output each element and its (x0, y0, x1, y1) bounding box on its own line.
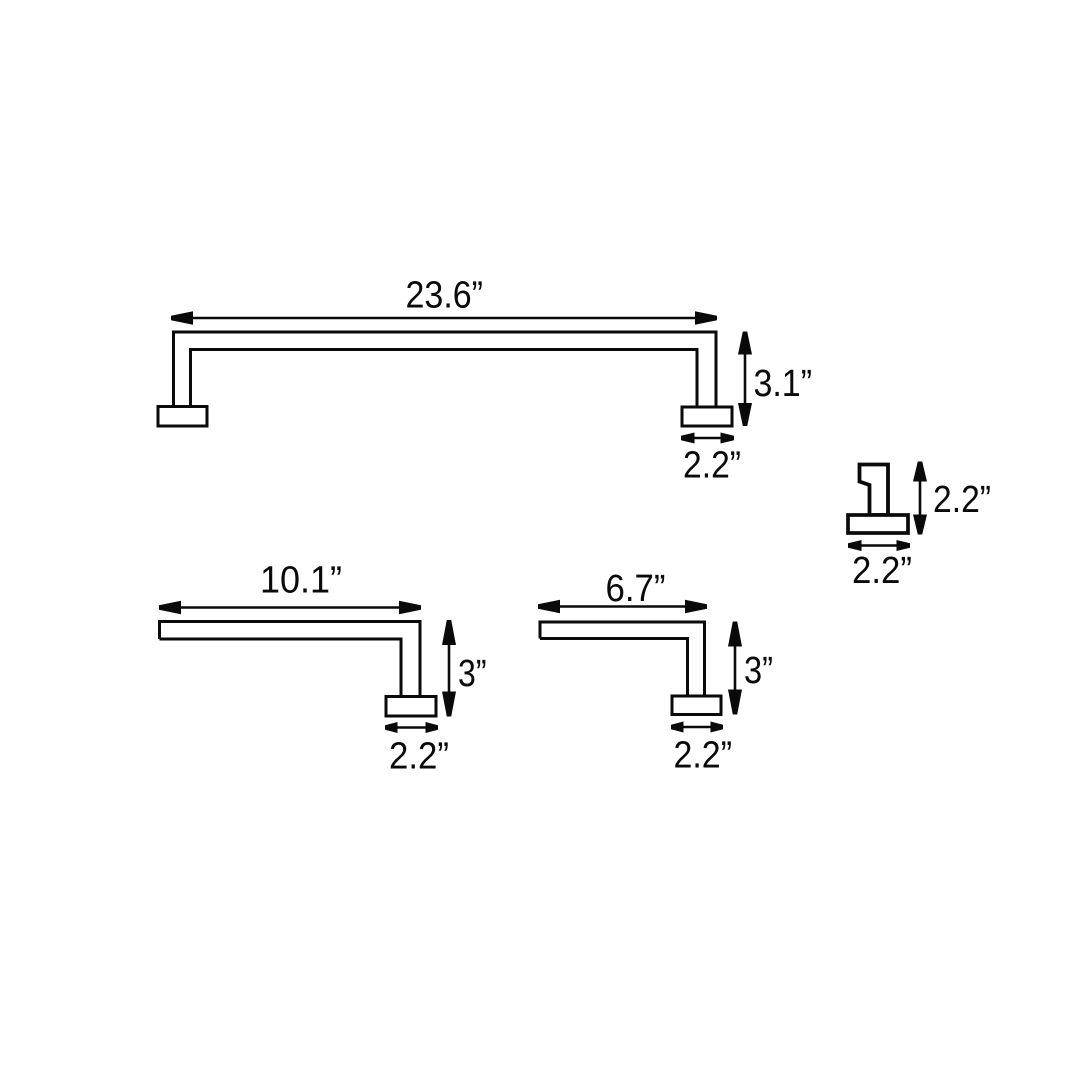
svg-text:2.2”: 2.2” (933, 479, 991, 521)
svg-text:2.2”: 2.2” (674, 735, 733, 777)
svg-text:2.2”: 2.2” (852, 550, 912, 592)
svg-text:6.7”: 6.7” (606, 568, 666, 610)
svg-text:3.1”: 3.1” (754, 363, 813, 405)
svg-text:10.1”: 10.1” (260, 560, 342, 602)
svg-text:3”: 3” (458, 653, 487, 695)
svg-text:3”: 3” (744, 650, 773, 692)
svg-text:2.2”: 2.2” (683, 445, 741, 487)
svg-text:23.6”: 23.6” (406, 275, 484, 317)
svg-text:2.2”: 2.2” (389, 736, 449, 778)
